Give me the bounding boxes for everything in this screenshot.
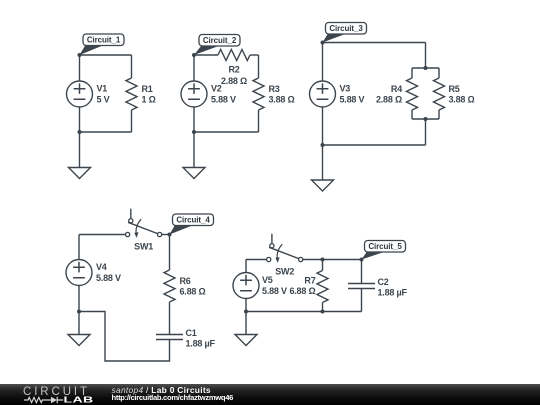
label R1 value "1 &#937;" (142, 84, 156, 104)
logo resistor-diode squiggle (24, 397, 51, 402)
junction node C3 top-left (321, 41, 325, 45)
svg-text:R4: R4 (391, 84, 402, 94)
wire C2 right upper (to R3) (258, 55, 260, 78)
wire C5 R7 top lead (322, 260, 324, 271)
svg-text:6.88 Ω: 6.88 Ω (289, 286, 315, 296)
switch SW1 (SPDT) (126, 209, 162, 238)
svg-text:Circuit_5: Circuit_5 (368, 242, 402, 251)
label R7 value "6.88 &#937;" (289, 276, 315, 296)
wire C5 C2 top lead (361, 260, 363, 284)
voltage source V5 (233, 273, 259, 299)
wire C1 left upper (node to V1+) (79, 55, 81, 81)
svg-text:V4: V4 (96, 262, 107, 272)
label C2 value "1.88 &#181;F" (378, 277, 408, 297)
ground C4 (68, 312, 90, 346)
wire C4 top horizontal (to SW1) (79, 234, 126, 236)
svg-text:V1: V1 (97, 84, 108, 94)
wire C3 left upper (node to V3+) (322, 43, 324, 82)
wire C3 bottom (323, 144, 426, 146)
junction node C2 top-left (192, 53, 196, 57)
junction node C3 bottom-left (321, 143, 325, 147)
ground C3 (312, 145, 334, 191)
net label callout "Circuit_4" (170, 214, 214, 235)
wire C2 bottom (194, 131, 259, 133)
svg-text:R1: R1 (142, 84, 153, 94)
wire C3 left lower (V3- to bottom) (322, 107, 324, 145)
svg-text:1 Ω: 1 Ω (142, 94, 156, 104)
label V3 value "5.88 V" (340, 84, 365, 105)
svg-text:5.88 V: 5.88 V (211, 94, 236, 104)
svg-text:SW1: SW1 (134, 242, 153, 252)
net label callout "Circuit_1" (80, 34, 125, 55)
svg-text:1.88 µF: 1.88 µF (186, 338, 216, 348)
svg-text:R5: R5 (449, 84, 460, 94)
svg-text:3.88 Ω: 3.88 Ω (269, 94, 295, 104)
resistor R4 (407, 78, 418, 110)
wire C2 top-left lead to R2 (194, 54, 218, 56)
junction node C3 parallel bottom (424, 117, 428, 121)
svg-text:5 V: 5 V (97, 94, 110, 104)
resistor R7 (317, 271, 328, 303)
wire C4 SW1 to node (162, 234, 170, 236)
junction node C5 R7 bottom (321, 310, 325, 314)
label V5 value "5.88 V" (262, 275, 287, 296)
wire C3 R5 bottom lead (438, 110, 440, 119)
voltage source V2 (181, 81, 207, 107)
svg-text:Circuit_1: Circuit_1 (87, 36, 121, 45)
svg-text:V3: V3 (340, 84, 351, 94)
resistor R2 (218, 50, 250, 61)
wire C5 C2 bottom lead (361, 289, 363, 312)
wire C3 R4 top lead (411, 68, 413, 78)
junction node C4 bottom-left (77, 310, 81, 314)
svg-text:R7: R7 (304, 276, 315, 286)
label R3 value "3.88 &#937;" (269, 84, 295, 104)
resistor R6 (164, 270, 175, 302)
label R5 value "3.88 &#937;" (449, 84, 475, 104)
wire C1 right lower (R1 bottom) (131, 110, 133, 132)
svg-text:3.88 Ω: 3.88 Ω (449, 94, 475, 104)
net label callout "Circuit_3" (323, 23, 367, 43)
label V4 value "5.88 V" (96, 262, 121, 283)
wire C4 top-left vertical (to V4+) (78, 235, 80, 260)
wire C5 R7 bottom lead (322, 303, 324, 312)
label C1 value "1.88 &#181;F" (186, 328, 216, 348)
junction node C4 after SW1 (168, 233, 172, 237)
footer bar (0, 384, 540, 405)
switch SW2 (SPDT) (267, 234, 303, 263)
svg-text:1.88 µF: 1.88 µF (378, 287, 408, 297)
wire C5 bottom (246, 311, 362, 313)
voltage source V4 (66, 260, 92, 286)
svg-text:R2: R2 (228, 65, 239, 75)
wire C5 V5- to bottom node (245, 299, 247, 312)
wire C3 R4 bottom lead (411, 110, 413, 119)
junction node C2 bottom-left (192, 130, 196, 134)
wire C5 top horizontal (to SW2) (246, 259, 267, 261)
svg-text:Circuit_4: Circuit_4 (176, 216, 210, 225)
svg-text:2.88 Ω: 2.88 Ω (221, 76, 247, 86)
wire C1 bottom (80, 131, 132, 133)
wire C1 right upper (to R1 top) (131, 55, 133, 78)
capacitor C1 (156, 335, 183, 340)
svg-text:2.88 Ω: 2.88 Ω (376, 94, 402, 104)
wire C3 right upper (to parallel pair) (425, 43, 427, 69)
wire C3 right lower (425, 119, 427, 145)
wire C1 top (V1+ to R1) (80, 54, 132, 56)
wire C5 SW2 to C2 branch (303, 259, 362, 261)
junction node C5 bottom-left (244, 310, 248, 314)
junction node C5 label attach (360, 258, 364, 262)
footer url line (112, 394, 234, 402)
label V2 value "5.88 V" (211, 84, 236, 105)
junction node C1 bottom-left (78, 130, 82, 134)
label R4 value "2.88 &#937;" (376, 84, 402, 104)
junction node C5 R7 top (321, 258, 325, 262)
svg-text:5.88 V: 5.88 V (340, 94, 365, 104)
wire C4 node to R6 (169, 235, 171, 271)
svg-text:5.88 V: 5.88 V (262, 286, 287, 296)
resistor R3 (253, 78, 264, 110)
wire C3 R5 top lead (438, 68, 440, 78)
wire C3 top (323, 42, 426, 44)
svg-text:C2: C2 (378, 277, 389, 287)
resistor R1 (126, 78, 137, 110)
svg-text:Circuit_3: Circuit_3 (329, 24, 363, 33)
wire C2 R2 to right corner (250, 54, 259, 56)
footer title line (112, 386, 211, 395)
voltage source V1 (67, 81, 93, 107)
voltage source V3 (310, 81, 336, 107)
svg-text:R3: R3 (269, 84, 280, 94)
wire C1 left lower (V1- to bottom node) (79, 107, 81, 132)
wire C3 parallel top bracket (412, 67, 439, 69)
junction node C1 top-left (78, 53, 82, 57)
wire C2 right lower (R3 bottom) (258, 110, 260, 132)
ground C2 (183, 132, 205, 179)
wire C4 R6 to C1 cap (169, 302, 171, 335)
capacitor C2 (348, 284, 375, 289)
CircuitLab logo (0, 382, 110, 405)
resistor R5 (434, 78, 445, 110)
svg-text:SW2: SW2 (275, 267, 294, 277)
net label callout "Circuit_5" (362, 241, 406, 260)
ground C1 (69, 132, 91, 179)
svg-text:6.88 Ω: 6.88 Ω (180, 286, 206, 296)
label R6 value "6.88 &#937;" (180, 276, 206, 296)
label V1 value "5 V" (97, 84, 110, 105)
svg-text:LAB: LAB (64, 395, 94, 404)
svg-text:5.88 V: 5.88 V (96, 273, 121, 283)
wire C5 top-left vertical (to V5+) (245, 260, 247, 273)
svg-text:C1: C1 (186, 328, 197, 338)
junction node C3 parallel top (424, 66, 428, 70)
label R2 value "2.88 &#937;" (221, 65, 247, 87)
svg-text:Circuit_2: Circuit_2 (203, 36, 237, 45)
wire C3 parallel bottom bracket (412, 118, 439, 120)
ground C5 (235, 312, 257, 346)
svg-text:V5: V5 (262, 275, 273, 285)
net label callout "Circuit_2" (194, 35, 240, 56)
svg-text:R6: R6 (180, 276, 191, 286)
wire C2 left lower (V2- to bottom) (193, 107, 195, 132)
wire C2 left upper (node to V2+) (193, 55, 195, 81)
wire C4 V4- to bottom node (78, 286, 80, 312)
wire C4 cap bottom to corner (79, 312, 170, 362)
